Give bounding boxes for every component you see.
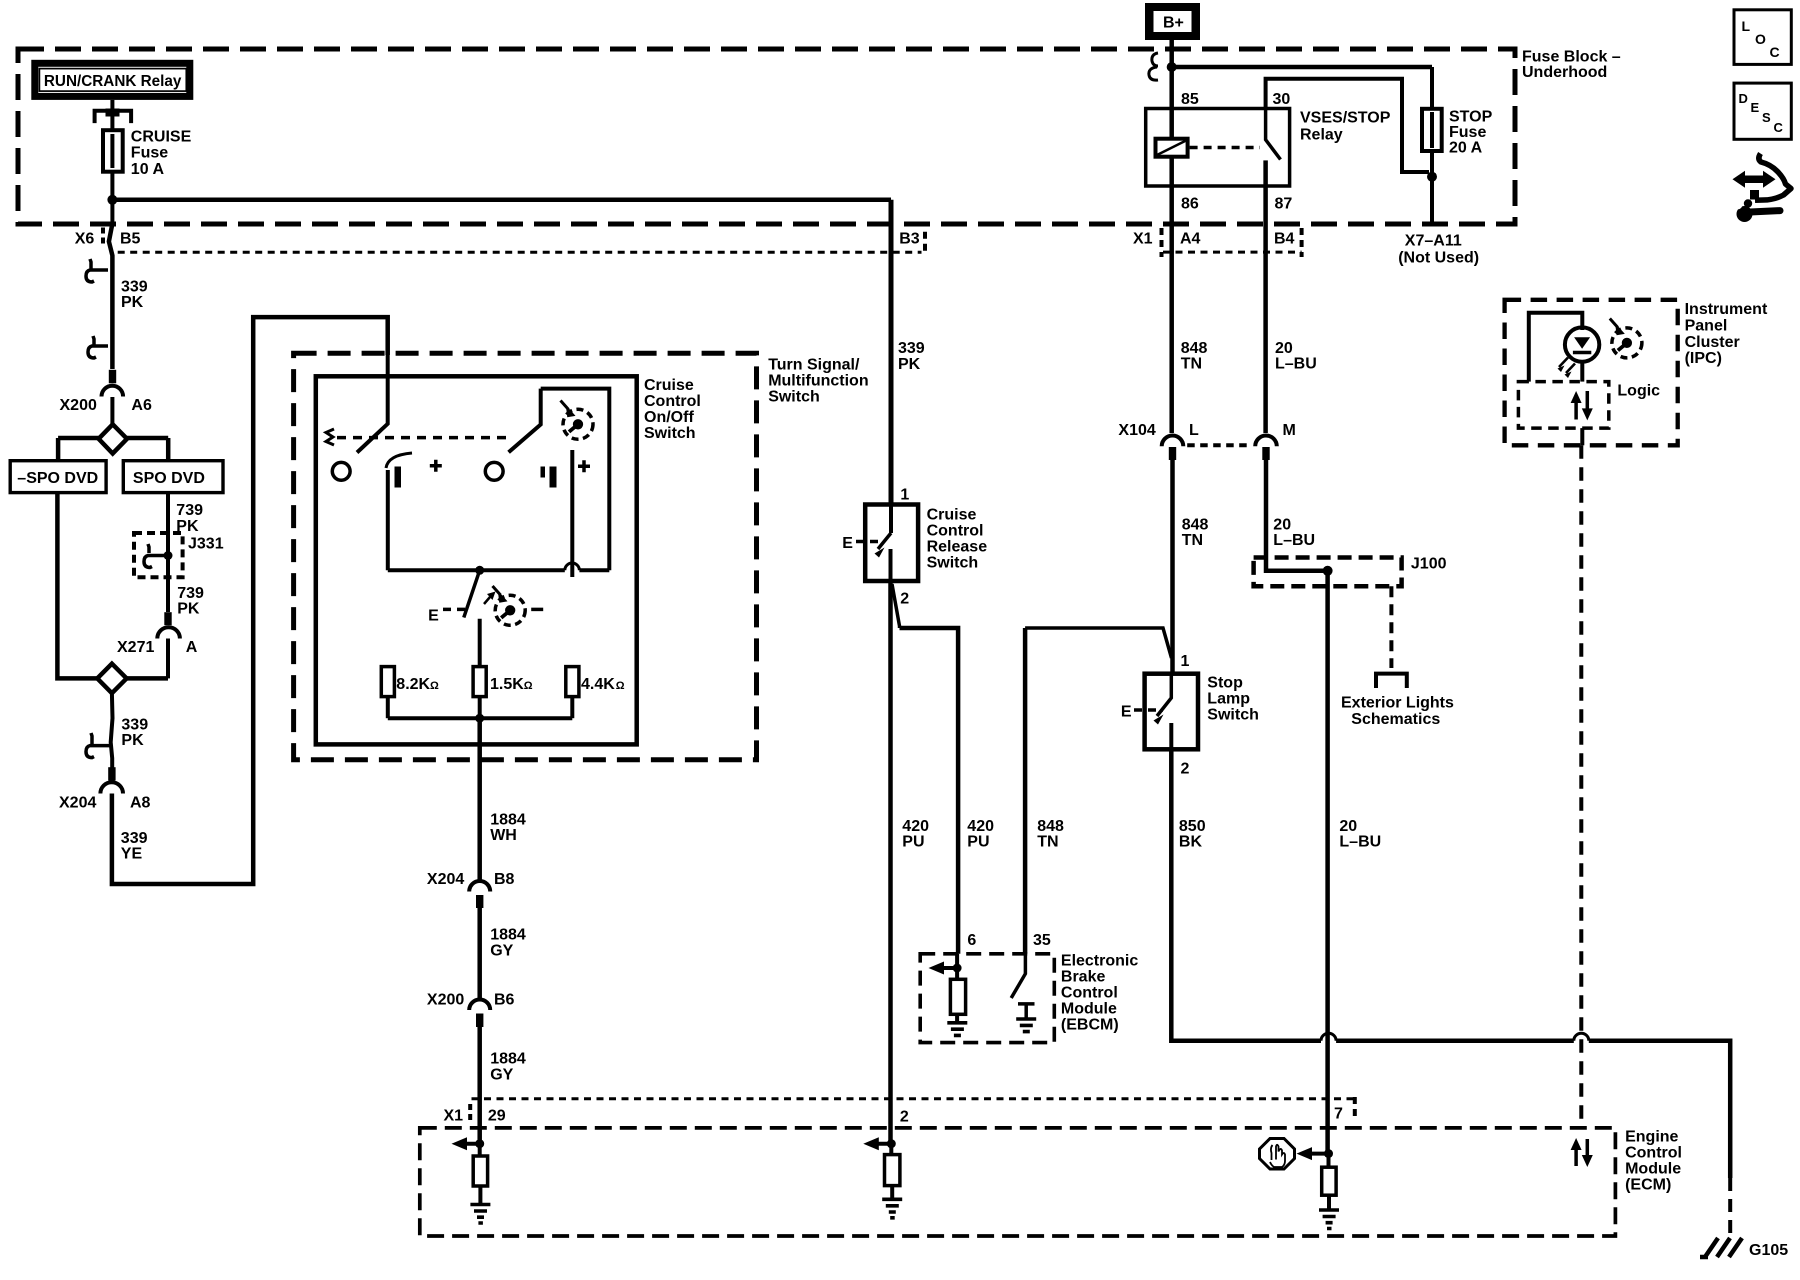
svg-text:29: 29 — [488, 1108, 506, 1125]
clip hook above X204-A8 — [86, 733, 110, 758]
cruise indicator LED circle — [1565, 327, 1599, 361]
svg-text:Engine: Engine — [1625, 1129, 1678, 1146]
svg-text:L–BU: L–BU — [1339, 834, 1381, 851]
svg-text:PU: PU — [902, 834, 924, 851]
ECM internal resistor pin2 — [889, 1144, 893, 1155]
svg-text:B6: B6 — [494, 992, 515, 1009]
svg-text:L–BU: L–BU — [1273, 532, 1315, 549]
svg-text:6: 6 — [967, 932, 976, 949]
dashed wire IPC to ECM — [1579, 445, 1583, 1128]
resume contact bar — [550, 467, 557, 488]
relay coil to pin 86 — [1169, 157, 1174, 186]
ground in EBCM pin 35 — [1016, 1019, 1036, 1032]
svg-text:7: 7 — [1334, 1106, 1343, 1123]
svg-text:M: M — [1283, 422, 1296, 439]
svg-text:Cruise: Cruise — [644, 377, 694, 394]
wire 850 BK to ground — [1171, 749, 1730, 1178]
svg-text:2: 2 — [900, 1109, 909, 1126]
svg-text:B3: B3 — [899, 231, 920, 248]
svg-text:20 A: 20 A — [1449, 140, 1483, 157]
connector X104-L arc — [1162, 435, 1184, 446]
E dashes release — [856, 540, 884, 544]
junction dot ECM pin 7 — [1324, 1149, 1333, 1158]
svg-text:739: 739 — [176, 502, 203, 519]
on/off switch blade — [357, 355, 388, 453]
svg-text:339: 339 — [121, 717, 148, 734]
svg-text:Ω: Ω — [430, 680, 439, 692]
E dashes set — [443, 608, 467, 612]
wire SPO DVD to J331 — [166, 493, 170, 535]
wire -SPO DVD down to splice2 — [57, 493, 97, 679]
svg-text:D: D — [1739, 91, 1748, 106]
ECM internal resistor pin 7 — [1327, 1154, 1331, 1168]
svg-text:Control: Control — [927, 523, 984, 540]
svg-text:BK: BK — [1179, 834, 1203, 851]
svg-text:1: 1 — [900, 487, 909, 504]
IPC wire loop — [1529, 313, 1583, 382]
junction dot EBCM pin 6 — [953, 964, 962, 973]
svg-text:Module: Module — [1061, 1001, 1117, 1018]
ground G105 chassis symbol — [1700, 1238, 1742, 1257]
wire 339 PK to release switch — [889, 200, 894, 505]
svg-text:VSES/STOP: VSES/STOP — [1300, 110, 1391, 127]
ECM band dotted line — [472, 1097, 1355, 1100]
ECM pin 2 arrow — [874, 1142, 891, 1146]
wire 20 L-BU J100 to ECM pin 7 — [1325, 571, 1330, 1154]
junction dot J100 — [1323, 566, 1333, 576]
lower bus in on/off switch — [388, 716, 573, 720]
svg-text:A4: A4 — [1180, 231, 1201, 248]
DESC reference box — [1734, 83, 1791, 139]
wire 848 TN relay 86 to X104-L — [1169, 186, 1174, 433]
junction dot output — [475, 714, 484, 723]
svg-text:B5: B5 — [120, 231, 141, 248]
svg-text:1884: 1884 — [490, 927, 526, 944]
set blade arrow — [484, 597, 490, 604]
wire drop to SPO DVD — [166, 438, 171, 462]
wire B+ down to relay pin 85 — [1169, 40, 1174, 139]
on/off open contact circle — [332, 462, 350, 480]
ground in ECM pin2 — [890, 1186, 894, 1200]
wire LED to logic — [1580, 362, 1584, 382]
splice diamond bottom — [97, 664, 126, 694]
minus sign set — [531, 608, 543, 612]
wire 848 TN X104-L to stop lamp — [1170, 460, 1175, 674]
svg-text:Cruise: Cruise — [927, 507, 977, 524]
connector X104-M male blade — [1262, 447, 1269, 460]
svg-text:339: 339 — [898, 340, 925, 357]
connector X204-B8 male blade — [476, 895, 483, 908]
set switch blade — [464, 570, 480, 617]
svg-text:S: S — [1762, 110, 1771, 125]
svg-text:PK: PK — [121, 294, 144, 311]
svg-text:L: L — [1742, 18, 1751, 34]
svg-text:Switch: Switch — [768, 389, 820, 406]
EBCM internal resistor — [955, 954, 959, 1023]
connector X271-A male blade — [164, 612, 171, 625]
svg-text:Ω: Ω — [616, 680, 625, 692]
EBCM pin 35 switch blade — [1011, 954, 1025, 998]
svg-text:X204: X204 — [59, 795, 96, 812]
hop over IPC dashed wire — [1574, 1033, 1589, 1041]
svg-text:2: 2 — [900, 591, 909, 608]
connector X271-A female arc — [157, 627, 180, 638]
svg-text:J331: J331 — [188, 536, 224, 553]
relay VSES/STOP box — [1146, 109, 1290, 187]
svg-text:J100: J100 — [1411, 556, 1447, 573]
off-page bracket exterior lights — [1376, 674, 1407, 688]
wire 339 YE loop to on/off switch — [112, 317, 388, 884]
resistor 4.4K — [566, 667, 579, 697]
clip hook above X200-A6 — [88, 336, 108, 358]
connector X104 bridge dashes — [1187, 443, 1250, 447]
logic dashed box — [1518, 382, 1608, 429]
svg-text:X200: X200 — [427, 992, 464, 1009]
connector X200-A6 female arc — [102, 386, 124, 397]
svg-text:8.2K: 8.2K — [396, 676, 430, 693]
svg-text:A8: A8 — [130, 795, 151, 812]
junction on fuse clip — [106, 109, 120, 117]
option box SPO DVD — [123, 461, 223, 493]
wire 20 L-BU X104-M to J100 — [1266, 460, 1328, 571]
connector tick B4 — [1300, 228, 1304, 257]
svg-text:X1: X1 — [444, 1108, 464, 1125]
svg-text:CRUISE: CRUISE — [131, 129, 192, 146]
B+ power symbol — [1145, 3, 1200, 40]
bus wire at splice — [58, 436, 168, 441]
svg-text:Switch: Switch — [927, 555, 979, 572]
wire 420 PU left to ECM pin 2 — [888, 581, 893, 1144]
wire feed to relay pin 30 — [1266, 79, 1429, 172]
svg-text:B4: B4 — [1274, 231, 1295, 248]
cruise control release switch box — [865, 505, 918, 582]
svg-text:86: 86 — [1181, 196, 1199, 213]
svg-text:Control: Control — [1625, 1145, 1682, 1162]
junction dot ECM pin 2 — [887, 1139, 896, 1148]
wire 420 PU right to EBCM pin 6 — [900, 628, 959, 954]
connector tick pin 7 — [1353, 1097, 1357, 1121]
hotlink outline arrow icon — [1755, 154, 1791, 201]
svg-text:YE: YE — [121, 846, 143, 863]
gauge icon IPC — [1610, 319, 1642, 358]
svg-text:339: 339 — [121, 830, 148, 847]
svg-text:O: O — [1755, 31, 1766, 47]
hop over 20 L-BU wire — [1321, 1033, 1336, 1041]
RUN/CRANK Relay label box — [35, 63, 190, 96]
release fixed contact — [889, 549, 893, 581]
wire 1884 WH from on/off output — [477, 718, 482, 881]
svg-text:Multifunction: Multifunction — [768, 373, 868, 390]
stop lamp blade — [1157, 674, 1171, 716]
connector band X1-A4-B4 dotted line — [1163, 251, 1302, 254]
option box -SPO DVD — [10, 461, 106, 493]
wrench icon — [1737, 206, 1753, 222]
bus wire right arm splice2 — [127, 676, 168, 681]
svg-text:RUN/CRANK Relay: RUN/CRANK Relay — [44, 73, 182, 90]
wire 848 TN down to EBCM pin 35 — [1023, 628, 1028, 954]
ECM pin 29 arrow — [462, 1142, 480, 1146]
svg-text:Relay: Relay — [1300, 127, 1343, 144]
wire from RUN/CRANK relay to CRUISE fuse — [110, 100, 114, 131]
svg-text:30: 30 — [1273, 91, 1291, 108]
wire STOP fuse to X7-A11 — [1430, 151, 1434, 224]
svg-text:PK: PK — [898, 356, 921, 373]
clip hook in J331 — [144, 544, 164, 568]
bus wire from CRUISE fuse to B3 drop — [112, 198, 891, 203]
svg-text:(EBCM): (EBCM) — [1061, 1017, 1119, 1034]
svg-text:739: 739 — [177, 585, 204, 602]
svg-text:Switch: Switch — [1207, 707, 1259, 724]
svg-text:Stop: Stop — [1207, 675, 1243, 692]
svg-text:Electronic: Electronic — [1061, 953, 1138, 970]
wire resume branch down — [570, 450, 574, 577]
connector tick X1 top — [1160, 228, 1164, 257]
connector X204-A8 male blade — [108, 767, 115, 780]
junction dot in J331 — [164, 551, 173, 560]
svg-text:Control: Control — [644, 393, 701, 410]
connector X204-B8 female arc — [469, 881, 490, 892]
svg-text:(Not Used): (Not Used) — [1398, 250, 1479, 267]
relay switch fixed contact to pin 87 — [1263, 160, 1268, 186]
svg-text:On/Off: On/Off — [644, 409, 694, 426]
set fixed contact wire — [478, 619, 482, 667]
clip hook below X6 — [86, 259, 108, 282]
svg-text:G105: G105 — [1749, 1242, 1788, 1259]
connector band X6-B5 dotted line — [118, 251, 922, 254]
connector X200-A6 male blade — [109, 370, 116, 384]
svg-text:TN: TN — [1182, 532, 1203, 549]
resume switch blade — [509, 389, 541, 453]
wire A6 to splice diamond — [110, 397, 114, 425]
svg-text:E: E — [428, 608, 439, 625]
svg-text:1.5K: 1.5K — [490, 676, 524, 693]
svg-text:PU: PU — [967, 834, 989, 851]
junction dot pin 29 — [475, 1139, 484, 1148]
wire on branch down — [386, 470, 390, 570]
svg-text:Control: Control — [1061, 985, 1118, 1002]
turn signal multifunction switch dashed box — [294, 353, 757, 760]
svg-text:339: 339 — [121, 279, 148, 296]
cruise on/off switch solid box — [316, 376, 637, 744]
svg-text:B8: B8 — [494, 871, 515, 888]
splice J331 dashed box — [134, 533, 183, 577]
svg-text:Release: Release — [927, 539, 988, 556]
svg-text:Brake: Brake — [1061, 969, 1106, 986]
resume switch circle — [485, 462, 503, 480]
svg-text:B+: B+ — [1163, 15, 1184, 32]
fuse STOP 20A body — [1422, 109, 1442, 151]
fuse block underhood dashed box — [18, 49, 1515, 224]
svg-text:Module: Module — [1625, 1161, 1681, 1178]
svg-text:PK: PK — [121, 732, 144, 749]
release blade arrow — [875, 548, 885, 558]
svg-text:X104: X104 — [1118, 422, 1155, 439]
svg-text:SPO DVD: SPO DVD — [133, 470, 205, 487]
svg-text:1884: 1884 — [490, 812, 526, 829]
J100 dashed branch to exterior lights — [1389, 586, 1393, 668]
wire 1884 GY mid — [477, 908, 482, 999]
wire drop to -SPO DVD — [56, 438, 61, 462]
release pin2 branch diagonal — [892, 584, 900, 628]
junction dot below B+ — [1167, 62, 1177, 72]
STOP fuse wire top — [1430, 67, 1434, 110]
svg-text:TN: TN — [1037, 834, 1058, 851]
svg-text:E: E — [1751, 100, 1760, 115]
hotlink double arrow icon — [1742, 176, 1766, 184]
relay switch blade — [1266, 109, 1281, 160]
svg-text:X200: X200 — [60, 397, 97, 414]
resume contact tick — [541, 467, 546, 478]
svg-text:Panel: Panel — [1685, 318, 1728, 335]
svg-text:20: 20 — [1339, 818, 1357, 835]
upper bus in on/off switch — [388, 568, 610, 572]
stop blade arrow — [1154, 715, 1164, 725]
plus sign right — [578, 460, 590, 472]
svg-text:A6: A6 — [131, 397, 152, 414]
junction dot below STOP fuse — [1427, 172, 1437, 182]
svg-text:X271: X271 — [117, 639, 154, 656]
ground in ECM pin29 — [478, 1186, 482, 1205]
svg-text:1: 1 — [1181, 653, 1190, 670]
svg-text:850: 850 — [1179, 818, 1206, 835]
svg-text:Fuse: Fuse — [1449, 124, 1486, 141]
svg-text:L: L — [1189, 422, 1199, 439]
wire B+ junction to STOP fuse — [1172, 65, 1432, 70]
svg-text:X204: X204 — [427, 871, 464, 888]
wire merge from 848 TN branch — [1025, 628, 1171, 658]
svg-text:C: C — [1770, 44, 1780, 60]
LED light rays — [1559, 358, 1575, 374]
svg-text:Schematics: Schematics — [1351, 711, 1440, 728]
wire 339 PK from X6-B5 to X200-A6 — [109, 224, 113, 370]
svg-text:X1: X1 — [1133, 231, 1153, 248]
wire 20 L-BU relay 87 to X104-M — [1263, 186, 1268, 433]
svg-text:WH: WH — [490, 827, 517, 844]
connector X104-M arc — [1255, 435, 1277, 446]
logic serial arrows — [1574, 400, 1578, 420]
ground in ECM pin 7 — [1327, 1195, 1331, 1210]
svg-text:A: A — [186, 639, 198, 656]
mechanical link dashed — [337, 436, 513, 440]
svg-text:Turn Signal/: Turn Signal/ — [768, 357, 860, 374]
svg-text:–SPO DVD: –SPO DVD — [17, 470, 98, 487]
stop lamp fixed contact — [1169, 723, 1173, 749]
connector tick B3 — [923, 232, 927, 252]
svg-text:848: 848 — [1182, 517, 1209, 534]
splice pack J100 dashed box — [1254, 558, 1402, 587]
svg-text:L–BU: L–BU — [1275, 356, 1317, 373]
svg-text:GY: GY — [490, 1067, 513, 1084]
svg-text:848: 848 — [1181, 340, 1208, 357]
svg-text:C: C — [1774, 120, 1784, 135]
connector tick X1 bottom — [468, 1104, 472, 1124]
svg-text:(ECM): (ECM) — [1625, 1177, 1671, 1194]
junction dot at fuse output — [107, 195, 117, 205]
ECM pin 7 arrow — [1307, 1152, 1329, 1156]
wire fuse to bus — [110, 172, 114, 224]
svg-text:1884: 1884 — [490, 1051, 526, 1068]
on contact bar — [395, 467, 402, 488]
relay coil — [1156, 139, 1188, 157]
resume housing box — [541, 389, 610, 571]
stop lamp switch box — [1145, 674, 1198, 750]
resistor 1.5K — [473, 667, 486, 697]
EBCM pin 6 arrow — [939, 966, 957, 970]
svg-text:85: 85 — [1181, 91, 1199, 108]
svg-text:Lamp: Lamp — [1207, 691, 1250, 708]
gauge icon set — [493, 586, 526, 625]
svg-text:Cluster: Cluster — [1685, 334, 1740, 351]
svg-text:TN: TN — [1181, 356, 1202, 373]
svg-text:10 A: 10 A — [131, 161, 165, 178]
svg-text:420: 420 — [902, 818, 929, 835]
svg-text:PK: PK — [177, 601, 200, 618]
gauge icon resume — [561, 401, 594, 440]
svg-text:2: 2 — [1181, 761, 1190, 778]
svg-text:35: 35 — [1033, 932, 1051, 949]
ECM dashed box — [420, 1128, 1616, 1236]
fuse CRUISE 10A body — [103, 130, 123, 172]
svg-text:20: 20 — [1275, 340, 1293, 357]
svg-text:Switch: Switch — [644, 425, 696, 442]
svg-text:20: 20 — [1273, 517, 1291, 534]
svg-text:Logic: Logic — [1617, 383, 1660, 400]
svg-text:Exterior Lights: Exterior Lights — [1341, 695, 1454, 712]
E dashes stop lamp — [1134, 708, 1163, 712]
resistor 8.2K — [381, 667, 394, 697]
wire 1884 GY lower — [477, 1027, 482, 1144]
svg-text:(IPC): (IPC) — [1685, 350, 1722, 367]
ECM internal resistor pin29 — [478, 1144, 482, 1156]
svg-text:Instrument: Instrument — [1685, 301, 1768, 318]
dashed tail to G105 — [1728, 1178, 1732, 1236]
plus sign left — [430, 460, 442, 472]
EBCM dashed box — [920, 954, 1054, 1043]
EBCM switch fixed contact — [1018, 1004, 1035, 1019]
clip hook at B+ junction — [1149, 53, 1158, 80]
detent zigzag — [326, 429, 334, 445]
connector tick X6 — [101, 228, 105, 246]
svg-text:848: 848 — [1037, 818, 1064, 835]
svg-text:E: E — [1121, 704, 1132, 721]
connector X200-B6 female arc — [469, 1000, 490, 1011]
wire 339 PK below splice2 — [111, 693, 113, 768]
wire X271 to splice2 — [166, 639, 170, 679]
connector X200-B6 male blade — [476, 1014, 483, 1028]
relay mech link dashed — [1190, 146, 1260, 150]
svg-text:Underhood: Underhood — [1522, 64, 1607, 81]
wire through J331 — [166, 535, 170, 612]
svg-text:E: E — [842, 535, 853, 552]
svg-text:Fuse: Fuse — [131, 145, 168, 162]
svg-text:4.4K: 4.4K — [581, 676, 615, 693]
svg-text:STOP: STOP — [1449, 109, 1493, 126]
svg-text:Ω: Ω — [524, 680, 533, 692]
connector X104-L male blade — [1169, 447, 1176, 460]
release switch blade — [889, 505, 893, 534]
instrument panel cluster dashed box — [1505, 300, 1678, 446]
svg-text:87: 87 — [1275, 196, 1293, 213]
ECM serial data arrows — [1574, 1147, 1578, 1166]
svg-text:420: 420 — [967, 818, 994, 835]
hop over bus — [565, 563, 580, 570]
svg-text:X7–A11: X7–A11 — [1405, 233, 1462, 250]
junction dot set pivot — [475, 566, 484, 575]
fuse holder clip symbol — [95, 111, 132, 123]
LED diode symbol — [1574, 337, 1590, 349]
logic box output stub — [1580, 428, 1584, 445]
ground in EBCM pin 6 — [947, 1023, 967, 1036]
